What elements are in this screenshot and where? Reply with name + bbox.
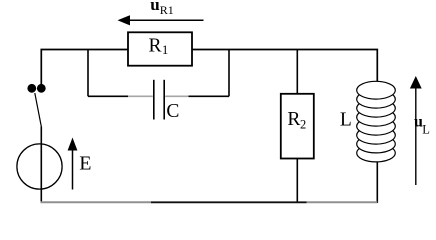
svg-text:L: L [422,122,430,136]
wire: R2 bottom lead [296,159,298,204]
wire: top rail left segment [41,50,128,85]
svg-text:L: L [340,110,352,131]
wire: capacitor branch left vertical [87,50,89,97]
capacitor C plate left [153,80,155,120]
wire: capacitor branch left horizontal (black part) [88,95,128,97]
wire: R2 top lead [296,50,298,94]
inductor L coil [357,81,396,162]
switch S contact right [37,84,46,93]
switch S lever [35,93,42,127]
svg-text:u: u [150,0,159,14]
wire: left rail through source [40,127,42,204]
switch S contact left [27,84,36,93]
wire: capacitor branch right horizontal (gray part) [165,95,188,97]
wire: top rail right segment [192,50,377,82]
arrow uR1 [128,19,204,21]
svg-text:R: R [149,36,162,57]
arrow uL [415,88,417,186]
svg-text:C: C [166,101,179,122]
svg-text:R1: R1 [160,3,174,17]
wire: bottom rail gray segment 1 [41,201,152,203]
wire: capacitor branch left horizontal (gray part) [128,95,153,97]
svg-text:1: 1 [162,43,168,57]
wire: capacitor branch right horizontal (black part) [189,95,230,97]
wire: bottom rail black segment [151,201,307,203]
voltage source E circle [17,144,62,189]
capacitor C plate right [163,80,165,120]
svg-text:E: E [79,153,91,175]
wire: L bottom lead [376,162,378,203]
resistor R2 [281,94,314,159]
resistor R1 [128,32,192,65]
wire: capacitor branch right vertical [228,50,230,97]
svg-text:2: 2 [300,118,306,132]
wire: bottom rail gray segment 2 [307,201,378,203]
svg-text:R: R [287,109,300,130]
arrow E [72,149,74,190]
